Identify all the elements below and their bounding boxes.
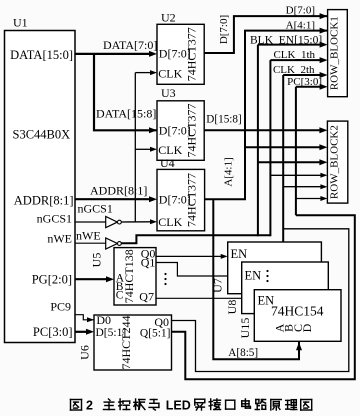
svg-text:CLK: CLK: [158, 66, 182, 80]
svg-text:U5: U5: [90, 253, 104, 268]
svg-text:CLK: CLK: [158, 143, 182, 157]
svg-text:U2: U2: [161, 10, 176, 24]
svg-text:CLK_1th: CLK_1th: [273, 49, 315, 61]
svg-text:CLK: CLK: [158, 215, 182, 229]
svg-text:74HCT377: 74HCT377: [185, 27, 199, 81]
svg-text:A[4:1]: A[4:1]: [286, 20, 315, 32]
svg-text:A[8:5]: A[8:5]: [228, 347, 258, 359]
svg-text:EN: EN: [245, 269, 262, 283]
svg-text:U4: U4: [160, 156, 175, 170]
svg-text:nWE: nWE: [76, 229, 101, 243]
svg-text:CLK_2th: CLK_2th: [273, 64, 315, 76]
svg-text:DATA[7:0]: DATA[7:0]: [103, 38, 157, 52]
svg-text:D0: D0: [96, 313, 111, 327]
svg-text:74HCT377: 74HCT377: [185, 104, 199, 158]
svg-text:D[15:8]: D[15:8]: [206, 114, 241, 126]
svg-text:U7: U7: [211, 278, 225, 293]
svg-text:nWE: nWE: [47, 232, 72, 246]
svg-text:D: D: [300, 323, 314, 332]
svg-text:ADDR[8:1]: ADDR[8:1]: [90, 184, 147, 198]
svg-text:PC[3:0]: PC[3:0]: [287, 76, 322, 88]
svg-text:74HC154: 74HC154: [271, 303, 324, 318]
svg-text:ROW_BLOCK2: ROW_BLOCK2: [329, 125, 341, 199]
svg-text:BLK_EN[15:0]: BLK_EN[15:0]: [250, 34, 322, 46]
svg-text:Q1: Q1: [141, 256, 156, 270]
svg-text:LED: LED: [166, 399, 191, 413]
svg-text:U15: U15: [238, 318, 252, 339]
svg-text:ROW_BLOCK1: ROW_BLOCK1: [329, 16, 341, 90]
svg-text:74HCT138: 74HCT138: [122, 249, 136, 303]
svg-text:DATA[15:0]: DATA[15:0]: [10, 48, 73, 62]
svg-text:U3: U3: [161, 86, 176, 100]
svg-text:PG[2:0]: PG[2:0]: [32, 272, 72, 286]
svg-text:DATA[15:8]: DATA[15:8]: [96, 107, 156, 121]
svg-text:ADDR[8:1]: ADDR[8:1]: [14, 193, 74, 207]
svg-text:S3C44B0X: S3C44B0X: [13, 128, 71, 142]
svg-text:nGCS1: nGCS1: [78, 202, 113, 216]
svg-text:EN: EN: [231, 247, 248, 261]
svg-text:74HCT244: 74HCT244: [119, 316, 133, 370]
svg-text:D[7:0]: D[7:0]: [218, 15, 230, 44]
svg-text:D[7:0]: D[7:0]: [286, 4, 315, 16]
svg-text:74HCT377: 74HCT377: [185, 173, 199, 227]
svg-text:nGCS1: nGCS1: [37, 212, 72, 226]
svg-text:2: 2: [86, 399, 93, 413]
svg-text:Q7: Q7: [139, 290, 154, 304]
svg-text:Q[5:1]: Q[5:1]: [140, 328, 171, 340]
svg-text:A[4:1]: A[4:1]: [223, 157, 235, 186]
svg-text:U1: U1: [13, 16, 28, 30]
svg-text:PC[3:0]: PC[3:0]: [33, 325, 73, 339]
svg-text:U8: U8: [225, 300, 239, 315]
svg-text:PC9: PC9: [50, 300, 71, 314]
svg-text:U6: U6: [78, 345, 92, 360]
